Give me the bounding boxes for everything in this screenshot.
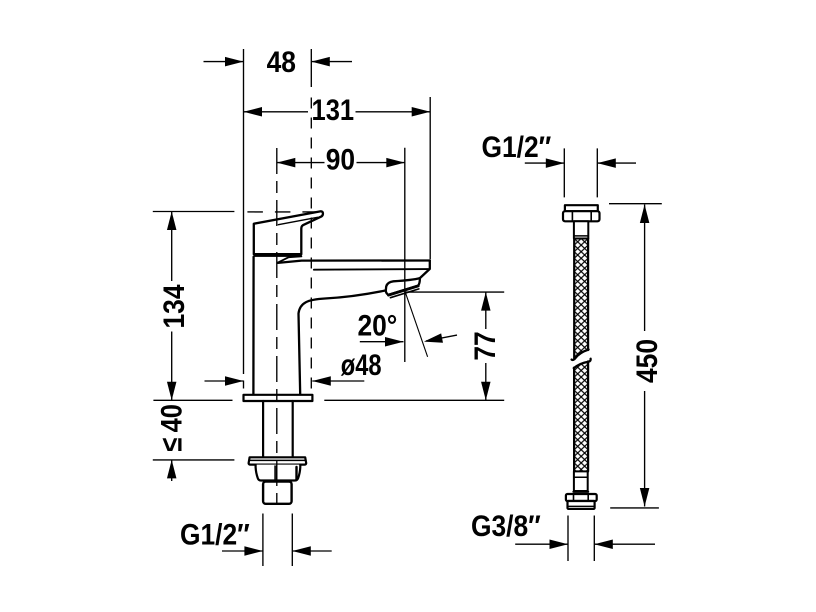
dim <=40 tail xyxy=(171,460,173,481)
hose top ferrule xyxy=(574,221,588,238)
arrowheads: 90 dim xyxy=(277,158,296,168)
G1/2 male thread end block xyxy=(263,482,292,504)
svg-text:48: 48 xyxy=(267,45,296,79)
arrowheads: faucet G1/2 xyxy=(244,546,263,556)
arrowhead: 20 deg horizontal xyxy=(385,337,404,347)
spout right end + chamfer xyxy=(420,261,430,279)
braided hose lower segment xyxy=(574,361,588,471)
aerator outlet level extension (77 dim top) xyxy=(405,291,504,293)
dim 48 line xyxy=(204,61,353,63)
arrowheads: 134 dim xyxy=(167,212,177,231)
svg-text:77: 77 xyxy=(467,331,501,360)
right extension line of 131 dim xyxy=(429,97,431,259)
hose 450 bottom extension line xyxy=(610,507,659,509)
hex nut facet lines xyxy=(275,466,277,480)
20 deg arrow line xyxy=(360,341,404,343)
svg-text:450: 450 xyxy=(629,339,663,383)
svg-text:20°: 20° xyxy=(357,308,397,342)
lever handle xyxy=(254,211,323,254)
handle top reference line (134 dim) xyxy=(153,211,235,213)
faucet G1/2 extension lines xyxy=(263,514,292,567)
base plate xyxy=(244,395,313,401)
arrowheads: hose G1/2 xyxy=(546,158,565,168)
handle skirt wedge xyxy=(278,256,302,262)
aerator body xyxy=(386,278,420,295)
arrowheads: 131 dim xyxy=(244,107,263,117)
hose top nut G1/2 xyxy=(563,211,600,221)
svg-text:131: 131 xyxy=(312,93,355,126)
water stream 20 deg line xyxy=(405,293,427,357)
svg-text:90: 90 xyxy=(326,142,355,176)
faucet vertical centerline xyxy=(276,148,278,504)
hose bottom nut G3/8 upper row xyxy=(566,494,597,501)
hose top nut facets xyxy=(572,211,591,221)
dim 77 line xyxy=(485,292,487,400)
hose G1/2 dim line xyxy=(525,162,636,164)
svg-text:134: 134 xyxy=(156,284,190,328)
hose bottom ferrule xyxy=(574,471,588,491)
hose G3/8 extension lines xyxy=(568,516,594,562)
svg-text:G1/2″: G1/2″ xyxy=(180,517,250,551)
washer under deck xyxy=(249,457,307,464)
svg-text:G1/2″: G1/2″ xyxy=(481,130,551,164)
hose G3/8 dim line xyxy=(515,543,655,545)
20 deg angled arrow tail xyxy=(426,335,457,341)
spout top edge xyxy=(278,261,430,263)
handle base bar (thick junction) xyxy=(254,254,302,257)
hose G1/2 extension lines xyxy=(564,148,597,197)
hose 450 top extension line xyxy=(609,203,662,205)
aerator outlet face (double line) xyxy=(388,286,418,295)
dim 131 line xyxy=(244,111,431,113)
arrowhead: 20 deg angled onto stream line xyxy=(423,333,443,346)
threaded shank tube xyxy=(263,401,293,457)
hose top cap washer xyxy=(565,205,598,211)
hose 450 dim line xyxy=(644,205,646,507)
arrowheads: hose 450 xyxy=(640,205,650,224)
deck level reference line (left) xyxy=(153,399,232,401)
arrowhead: <=40 xyxy=(167,460,177,479)
column left edge xyxy=(252,257,255,395)
spout underside curve into column right edge xyxy=(299,290,386,394)
arrowheads: o48 dim xyxy=(225,376,244,386)
arrowheads: 77 dim xyxy=(481,292,491,311)
hose break cut (upper) xyxy=(572,350,589,360)
handle blade inner line xyxy=(278,217,317,224)
hose bottom nut lower row xyxy=(568,501,595,509)
faucet G1/2 dim line xyxy=(222,550,332,552)
deck level line (right of plate) xyxy=(324,399,504,401)
right extension line of 48 dim (dashed through body) xyxy=(310,49,312,87)
svg-text:ø48: ø48 xyxy=(341,348,382,381)
hose break cut (lower) xyxy=(574,359,591,368)
arrowheads: 48 dim xyxy=(225,57,244,67)
dim o48 line xyxy=(205,380,365,382)
dim 90 line xyxy=(277,162,405,164)
dim 134 line xyxy=(171,212,173,401)
spout tip reference line (90 dim / 20 deg) xyxy=(404,148,406,362)
left extension line (48 / 131 / o48 dims) xyxy=(243,49,245,374)
arrowheads: hose G3/8 xyxy=(550,539,569,549)
svg-text:G3/8″: G3/8″ xyxy=(471,508,541,542)
spout inner top line xyxy=(314,268,429,271)
svg-text:≤ 40: ≤ 40 xyxy=(155,404,188,451)
max deck thickness line (bottom of <=40) xyxy=(153,459,235,461)
braided hose upper segment xyxy=(574,239,588,359)
hex nut xyxy=(256,465,301,481)
